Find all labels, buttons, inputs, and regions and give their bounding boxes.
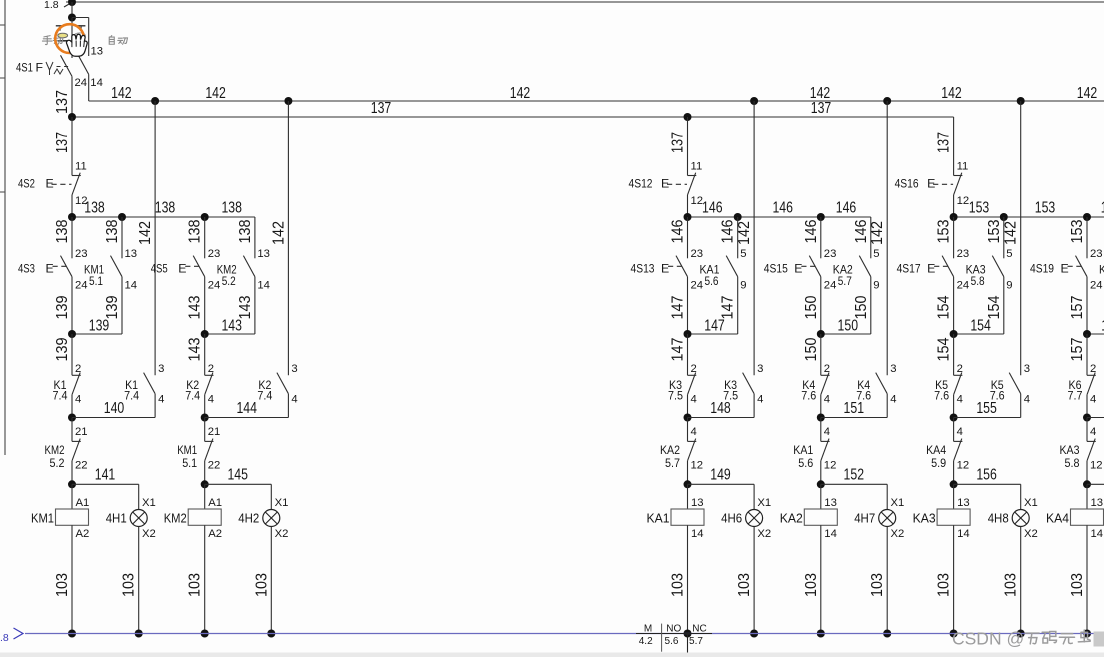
svg-text:5.7: 5.7 — [689, 636, 703, 647]
junction 137 rail at 4S12 — [684, 113, 692, 121]
svg-text:4S2: 4S2 — [18, 177, 35, 191]
svg-text:143: 143 — [187, 295, 204, 319]
wire below bus at group 3 — [687, 634, 689, 653]
aux contact KM1 5.1 stub — [118, 213, 126, 221]
svg-text:23: 23 — [691, 248, 704, 260]
svg-text:CSDN @: CSDN @ — [952, 629, 1024, 649]
svg-text:4: 4 — [824, 394, 830, 406]
svg-text:145: 145 — [227, 467, 248, 484]
svg-text:5.1: 5.1 — [182, 456, 197, 470]
svg-text:142: 142 — [137, 221, 154, 245]
svg-text:23: 23 — [208, 248, 221, 260]
wire K4 to K-row junction — [820, 395, 822, 418]
svg-text:X1: X1 — [142, 497, 156, 509]
svg-text:142: 142 — [1003, 221, 1020, 245]
svg-text:2: 2 — [1090, 363, 1096, 375]
svg-text:152: 152 — [844, 467, 865, 484]
wire 137 from 4S1 pin 24 — [71, 76, 73, 117]
wire mid to K5 contact — [953, 334, 955, 375]
wire 140 horizontal — [72, 417, 155, 419]
svg-text:5.6: 5.6 — [665, 636, 679, 647]
svg-text:142: 142 — [270, 221, 287, 245]
wire 144 horizontal — [205, 417, 289, 419]
svg-text:150: 150 — [803, 295, 820, 319]
wire 103 below lamp 4H8 — [1020, 527, 1022, 634]
svg-text:5.7: 5.7 — [665, 456, 680, 470]
4S1 manual position base line — [58, 40, 68, 42]
junction coil row 141 — [68, 480, 76, 488]
svg-text:E: E — [46, 177, 54, 191]
svg-text:4: 4 — [1090, 394, 1096, 406]
svg-text:103: 103 — [1069, 573, 1086, 597]
svg-text:153: 153 — [1069, 219, 1086, 243]
lamp 4H8 symbol — [1012, 510, 1029, 527]
svg-text:4S17: 4S17 — [897, 262, 921, 276]
svg-text:103: 103 — [869, 573, 886, 597]
svg-text:X2: X2 — [142, 528, 156, 540]
wire mid to K2 contact — [204, 334, 206, 375]
svg-text:5.6: 5.6 — [705, 274, 719, 288]
wire coil top stub — [953, 484, 955, 509]
wire 149 horizontal to lamp 4H6 — [688, 483, 755, 485]
svg-text:146: 146 — [702, 200, 723, 217]
svg-text:A1: A1 — [76, 497, 90, 509]
switch 4S19 contact arm — [1076, 256, 1088, 277]
svg-text:4.2: 4.2 — [639, 636, 653, 647]
coil KA1 rect — [671, 509, 704, 525]
svg-text:4H1: 4H1 — [106, 510, 127, 525]
svg-text:144: 144 — [236, 400, 257, 417]
junction bus at coil KM2 — [201, 630, 209, 638]
junction bus at coil KA3 — [950, 630, 958, 638]
svg-text:146: 146 — [720, 219, 737, 243]
svg-text:22: 22 — [208, 460, 221, 472]
svg-text:142: 142 — [205, 85, 226, 102]
wire 103 below coil KM2 — [204, 525, 206, 633]
svg-text:103: 103 — [736, 573, 753, 597]
svg-text:9: 9 — [740, 279, 746, 291]
wire aux KA3 to mid rail — [1003, 277, 1005, 334]
wire to NC contact KA3 5.8 — [1086, 418, 1088, 442]
svg-text:4H8: 4H8 — [988, 510, 1009, 525]
junction bus at lamp 4H8 — [1017, 630, 1025, 638]
selector switch 4S1 right pole stub — [88, 18, 90, 57]
4S1 position ellipse auto — [74, 33, 85, 38]
svg-text:KA1: KA1 — [647, 510, 670, 525]
aux contact KA2 arm — [859, 256, 871, 277]
svg-text:4: 4 — [291, 394, 297, 406]
svg-text:5.9: 5.9 — [931, 456, 946, 470]
switch 4S5 NO contact stub — [204, 217, 206, 258]
svg-text:13: 13 — [257, 248, 270, 260]
NC contact KM1 5.1 — [205, 440, 214, 442]
lamp 4H2 symbol — [263, 510, 280, 527]
junction mid 157 — [1083, 330, 1091, 338]
svg-text:137: 137 — [811, 100, 832, 117]
junction 142 rail at drop group 2 — [284, 97, 292, 105]
relay contact K2 7.4 right NO — [277, 373, 289, 394]
svg-text:138: 138 — [155, 200, 176, 217]
svg-text:4: 4 — [824, 426, 830, 438]
svg-text:X1: X1 — [275, 497, 289, 509]
svg-text:24: 24 — [75, 279, 88, 291]
wire NC to coil junction — [1086, 461, 1088, 485]
junction K-row 158 — [1083, 414, 1091, 422]
wire 156 horizontal to lamp 4H8 — [954, 483, 1021, 485]
svg-text:23: 23 — [1090, 248, 1103, 260]
wire K5 right down — [1020, 394, 1022, 418]
selector switch 4S1 bridge wire — [72, 17, 89, 19]
frame tick row 3 — [0, 191, 5, 193]
wire 138 corner down to KM2 aux — [254, 217, 256, 258]
4S1 position ellipse manual selected yellow — [58, 33, 68, 38]
svg-text:4: 4 — [1024, 394, 1030, 406]
wire 159 horizontal to edge — [1087, 483, 1104, 485]
svg-text:142: 142 — [111, 85, 132, 102]
wire to NC contact KA4 5.9 — [953, 418, 955, 442]
wire from 4S19 pin 24 to mid junction — [1086, 277, 1088, 334]
svg-text:NO: NO — [666, 623, 681, 634]
svg-text:155: 155 — [976, 400, 997, 417]
svg-text:3: 3 — [291, 363, 297, 375]
svg-text:143: 143 — [187, 337, 204, 361]
wire to NC contact KM1 5.1 — [204, 418, 206, 442]
cursor highlight circle orange — [55, 24, 84, 53]
aux contact KM2 arm — [243, 256, 255, 277]
wire 103 below lamp 4H7 — [886, 527, 888, 634]
wire 12 side of 4S12 to rail — [687, 195, 689, 217]
4S1 mechanical dashed link — [57, 66, 70, 68]
junction K-row 155 — [950, 414, 958, 422]
svg-text:13: 13 — [824, 497, 837, 509]
svg-text:150: 150 — [838, 317, 859, 334]
svg-text:14: 14 — [125, 279, 138, 291]
aux contact KA3 arm — [992, 256, 1004, 277]
4S1 right contact arm — [77, 53, 89, 74]
lamp 4H1 symbol — [130, 510, 147, 527]
svg-text:137: 137 — [670, 132, 687, 153]
wire 103 below coil KA4 — [1086, 525, 1088, 633]
wire from 4S13 pin 24 to mid junction — [687, 277, 689, 334]
svg-text:X2: X2 — [757, 528, 771, 540]
wire 137 rail — [72, 116, 954, 118]
svg-text:E: E — [661, 262, 669, 276]
svg-text:X1: X1 — [1024, 497, 1038, 509]
svg-text:7.6: 7.6 — [934, 389, 949, 403]
svg-text:14: 14 — [90, 77, 103, 89]
wire K5 to K-row junction — [953, 395, 955, 418]
wire 103 below lamp 4H6 — [753, 527, 755, 634]
selector switch 4S1 left pole wire — [71, 18, 73, 59]
wire from 4S17 pin 24 to mid junction — [953, 277, 955, 334]
coil KM1 rect — [56, 509, 89, 525]
svg-text:146: 146 — [803, 219, 820, 243]
aux contact KM2 5.2 stub — [254, 257, 256, 259]
svg-text:103: 103 — [1003, 573, 1020, 597]
wire mid horizontal 143 — [205, 333, 255, 335]
svg-text:141: 141 — [95, 467, 116, 484]
table M NO NC overlay line — [636, 633, 712, 635]
svg-text:14: 14 — [1091, 528, 1104, 540]
junction K-row 144 — [201, 414, 209, 422]
svg-text:KM1: KM1 — [177, 443, 197, 457]
svg-text:E: E — [661, 177, 669, 191]
svg-text:5.1: 5.1 — [89, 274, 103, 288]
wire 12 side of 4S16 to rail — [953, 195, 955, 217]
wire mid to K4 contact — [820, 334, 822, 375]
4S1 left contact arm — [61, 55, 73, 76]
wire coil top stub — [820, 484, 822, 509]
svg-text:A2: A2 — [208, 528, 222, 540]
table separator 1 — [661, 624, 663, 652]
svg-text:103: 103 — [121, 573, 138, 597]
svg-text:4: 4 — [208, 394, 214, 406]
wire from 4S15 pin 24 to mid junction — [820, 277, 822, 334]
wire 103 below coil KA2 — [820, 525, 822, 633]
svg-text:E: E — [927, 262, 935, 276]
junction K-row 140 — [68, 414, 76, 422]
svg-text:4S1: 4S1 — [16, 61, 33, 75]
svg-text:14: 14 — [824, 528, 837, 540]
svg-text:21: 21 — [208, 426, 221, 438]
aux contact KA1 arm — [726, 256, 738, 277]
svg-text:149: 149 — [710, 467, 731, 484]
wire K3 right down — [753, 394, 755, 418]
lamp 4H6 symbol — [746, 510, 763, 527]
svg-text:KA2: KA2 — [780, 510, 803, 525]
svg-text:12: 12 — [957, 460, 970, 472]
svg-text:KA1: KA1 — [793, 443, 813, 457]
wire from 4S3 pin 24 to mid junction — [71, 277, 73, 334]
junction bus at coil KA2 — [817, 630, 825, 638]
svg-text:5.2: 5.2 — [50, 456, 65, 470]
wire mid to K1 contact — [71, 334, 73, 375]
wire lamp 4H1 top stub — [138, 484, 140, 509]
junction 142 rail at drop group 1 — [151, 97, 159, 105]
svg-text:KA2: KA2 — [660, 443, 680, 457]
wire coil top stub — [71, 484, 73, 509]
junction rail 153 at group 6 main pole — [1083, 213, 1091, 221]
NC contact KA3 5.8 — [1087, 440, 1096, 442]
svg-text:9: 9 — [1006, 279, 1012, 291]
svg-text:X1: X1 — [891, 497, 905, 509]
svg-text:NC: NC — [692, 623, 706, 634]
svg-text:12: 12 — [957, 195, 970, 207]
wire coil top stub — [204, 484, 206, 509]
switch 4S15 contact arm — [809, 256, 821, 277]
junction coil row 159 — [1083, 480, 1091, 488]
svg-text:137: 137 — [371, 100, 392, 117]
svg-text:KA4: KA4 — [926, 443, 946, 457]
switch 4S5 contact arm — [193, 256, 205, 277]
svg-text:A1: A1 — [208, 497, 222, 509]
svg-text:148: 148 — [710, 400, 731, 417]
svg-text:153: 153 — [969, 200, 990, 217]
svg-text:4: 4 — [957, 426, 963, 438]
junction bus at lamp 4H7 — [883, 630, 891, 638]
svg-text:3: 3 — [158, 363, 164, 375]
wire 146 rail (groups 3-4) — [688, 216, 871, 218]
svg-text:24: 24 — [691, 279, 704, 291]
junction rail 138 at group 1 main pole — [68, 213, 76, 221]
svg-text:142: 142 — [1077, 85, 1098, 102]
svg-text:22: 22 — [75, 460, 88, 472]
svg-text:11: 11 — [75, 161, 87, 173]
svg-text:7.7: 7.7 — [1068, 389, 1083, 403]
svg-text:146: 146 — [853, 219, 870, 243]
svg-text:146: 146 — [772, 200, 793, 217]
svg-text:3: 3 — [757, 363, 763, 375]
svg-text:7.4: 7.4 — [53, 389, 68, 403]
relay contact K5 7.6 left (with tick) — [954, 374, 963, 376]
svg-text:147: 147 — [704, 317, 725, 334]
svg-text:137: 137 — [936, 132, 953, 153]
svg-text:4: 4 — [1090, 426, 1096, 438]
svg-text:21: 21 — [75, 426, 88, 438]
relay contact K4 7.6 left (with tick) — [821, 374, 830, 376]
svg-text:7.6: 7.6 — [801, 389, 816, 403]
svg-text:138: 138 — [237, 219, 254, 243]
wire K2 to K-row junction — [204, 395, 206, 418]
svg-text:7.4: 7.4 — [124, 389, 139, 403]
svg-text:142: 142 — [736, 221, 753, 245]
svg-text:154: 154 — [936, 337, 953, 361]
junction mid 147 — [684, 330, 692, 338]
wire to NC contact KA1 5.6 — [820, 418, 822, 442]
junction 137 rail at 4S1 — [68, 113, 76, 121]
svg-text:14: 14 — [257, 279, 270, 291]
frame: left drawing border line — [4, 0, 6, 455]
wire NC to coil junction — [687, 461, 689, 485]
svg-text:13: 13 — [691, 497, 704, 509]
svg-text:23: 23 — [957, 248, 970, 260]
svg-text:1.8: 1.8 — [44, 0, 59, 11]
coil KA3 rect — [937, 509, 970, 525]
wire lamp 4H7 top stub — [886, 484, 888, 509]
svg-text:138: 138 — [221, 200, 242, 217]
switch 4S12 (NC pushbutton) top stub on wire 137 — [687, 117, 689, 176]
coil KA4 rect — [1071, 509, 1104, 525]
svg-text:157: 157 — [1069, 337, 1086, 361]
switch 4S19 NO contact stub — [1086, 217, 1088, 258]
svg-text:138: 138 — [54, 219, 71, 243]
svg-text:143: 143 — [237, 295, 254, 319]
wire 145 horizontal to lamp 4H2 — [205, 483, 272, 485]
svg-text:24: 24 — [1090, 279, 1103, 291]
NC contact KA2 5.7 — [688, 440, 697, 442]
switch 4S15 NO contact stub — [820, 217, 822, 258]
svg-text:156: 156 — [976, 467, 997, 484]
svg-text:KM1: KM1 — [31, 510, 54, 525]
svg-text:5.8: 5.8 — [971, 274, 985, 288]
svg-text:12: 12 — [1090, 460, 1103, 472]
svg-text:KM2: KM2 — [164, 510, 187, 525]
wire 155 horizontal — [954, 417, 1021, 419]
svg-text:154: 154 — [936, 295, 953, 319]
wire 151 horizontal — [821, 417, 887, 419]
relay contact K3 7.5 left (with tick) — [688, 374, 697, 376]
svg-text:4: 4 — [957, 394, 963, 406]
switch 4S13 NO contact stub — [687, 217, 689, 258]
svg-text:140: 140 — [104, 400, 125, 417]
junction bus at lamp 4H2 — [267, 630, 275, 638]
mouse hand cursor — [67, 34, 88, 56]
junction mid 143 — [201, 330, 209, 338]
wire mid to K6 contact — [1086, 334, 1088, 375]
wire aux KM1 to mid rail — [121, 277, 123, 334]
svg-text:151: 151 — [844, 400, 865, 417]
svg-text:103: 103 — [54, 573, 71, 597]
wire 142 drop to K1 right contact — [154, 101, 156, 375]
svg-text:150: 150 — [803, 337, 820, 361]
relay contact K1 7.4 right NO — [144, 373, 156, 394]
wire K6 to K-row junction — [1086, 395, 1088, 418]
svg-text:4: 4 — [757, 394, 763, 406]
wire mid horizontal 154 — [954, 333, 1004, 335]
NC contact KA4 5.9 — [954, 440, 963, 442]
wire mid horizontal 150 — [821, 333, 871, 335]
wire 4S1 feeder — [71, 2, 73, 18]
svg-text:5.2: 5.2 — [222, 274, 236, 288]
svg-text:4H6: 4H6 — [721, 510, 742, 525]
svg-text:KM2: KM2 — [45, 443, 65, 457]
svg-text:M: M — [644, 623, 652, 634]
junction bus at lamp 4H1 — [135, 630, 143, 638]
svg-text:103: 103 — [936, 573, 953, 597]
label auto chinese — [109, 36, 114, 45]
svg-text:153: 153 — [1035, 200, 1056, 217]
svg-text:5: 5 — [873, 248, 879, 260]
svg-text:13: 13 — [957, 497, 970, 509]
svg-text:146: 146 — [670, 219, 687, 243]
svg-text:7.4: 7.4 — [257, 389, 272, 403]
wire K1 right down — [154, 394, 156, 418]
svg-text:KA3: KA3 — [1060, 443, 1080, 457]
svg-text:142: 142 — [869, 221, 886, 245]
aux contact KA1 5.6 stub — [734, 213, 742, 221]
junction coil row 145 — [201, 480, 209, 488]
svg-text:103: 103 — [670, 573, 687, 597]
svg-text:147: 147 — [670, 337, 687, 361]
svg-text:4S3: 4S3 — [18, 262, 35, 276]
switch 4S16 (NC pushbutton) top stub on wire 137 — [953, 117, 955, 176]
wire 141 horizontal to lamp 4H1 — [72, 483, 139, 485]
svg-text:2: 2 — [824, 363, 830, 375]
wire top rail from sheet 1.8 — [66, 1, 1104, 3]
wire coil top stub — [1086, 484, 1088, 509]
svg-text:4S12: 4S12 — [629, 177, 653, 191]
wire lamp 4H2 top stub — [270, 484, 272, 509]
junction mid 154 — [950, 330, 958, 338]
svg-text:4H7: 4H7 — [854, 510, 875, 525]
wire 138 rail (groups 1-2) — [72, 216, 255, 218]
svg-text:2: 2 — [208, 363, 214, 375]
switch 4S16 NC contact — [954, 175, 963, 177]
wire aux KA1 to mid rail — [737, 277, 739, 334]
wire mid horizontal 147 — [688, 333, 738, 335]
svg-text:2: 2 — [957, 363, 963, 375]
svg-text:13: 13 — [91, 46, 104, 58]
coil KM2 rect — [188, 509, 221, 525]
relay contact K6 7.7 left (with tick) — [1087, 374, 1096, 376]
wire lamp 4H6 top stub — [753, 484, 755, 509]
svg-text:4: 4 — [158, 394, 164, 406]
svg-text:4: 4 — [890, 394, 896, 406]
svg-text:103: 103 — [187, 573, 204, 597]
svg-text:2: 2 — [691, 363, 697, 375]
junction 142 rail at drop group 3 — [750, 97, 758, 105]
svg-text:142: 142 — [510, 85, 531, 102]
